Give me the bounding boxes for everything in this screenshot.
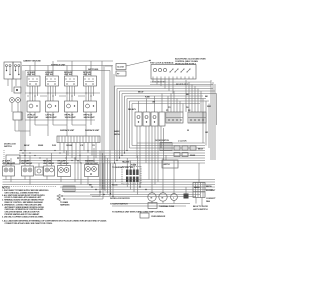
motor: cooling fan (159, 193, 167, 201)
svg-text:CABINET GROUND: CABINET GROUND (23, 60, 41, 63)
svg-text:W-R: W-R (207, 106, 211, 108)
svg-text:1200W UNIT: 1200W UNIT (65, 117, 77, 119)
wire: mid-bottom verticals (100, 151, 110, 197)
heater: warmer element (85, 160, 99, 177)
svg-text:BAKE: BAKE (194, 186, 200, 189)
svg-text:UNIT 2400W: UNIT 2400W (58, 162, 69, 165)
lamp: pilot LR (46, 101, 59, 119)
svg-text:W-BK: W-BK (190, 155, 196, 157)
node: trunk dots (20, 150, 25, 156)
wire: switch feeders (30, 61, 91, 76)
wire: top trunk L1 (57, 60, 113, 62)
switch: infinite switch LR (45, 72, 59, 86)
component: right mid boxes (174, 146, 203, 157)
wire: left feeders (8, 66, 25, 164)
svg-text:BK-W TO DOOR: BK-W TO DOOR (193, 206, 208, 208)
wire: main bus horizontals (19, 151, 205, 164)
lamp: pilot RF (84, 101, 97, 119)
wire: mesh below pilots (25, 112, 95, 136)
svg-text:THERMAL FUSE: THERMAL FUSE (159, 205, 175, 208)
wire: plugs drops (111, 156, 138, 197)
switch: clock boxlet (105, 64, 126, 77)
wire: motor feeds (152, 156, 202, 207)
lamp: pilot LF (27, 101, 40, 119)
svg-text:TO LATCH SWITCH: TO LATCH SWITCH (110, 203, 128, 206)
svg-text:2400W UNIT: 2400W UNIT (46, 116, 58, 119)
wire: right edge verticals (203, 80, 217, 160)
wire: nested bus right (115, 86, 217, 104)
wire: top trunk L2 (22, 65, 113, 67)
wire: inter-switch links (25, 86, 100, 101)
motor: convection fan (148, 193, 156, 201)
component: lower box (162, 160, 178, 168)
svg-text:MODELS) SEE NOTE 4: MODELS) SEE NOTE 4 (175, 63, 197, 66)
svg-text:RELAYS: RELAYS (128, 108, 136, 111)
svg-text:R-W: R-W (52, 145, 56, 147)
relay: latch box (160, 143, 172, 151)
svg-text:BROIL: BROIL (206, 186, 213, 188)
svg-text:SURFACE UNIT: SURFACE UNIT (60, 129, 75, 132)
wire: top trunk N (25, 70, 110, 72)
wire: bottom bus right (60, 187, 215, 197)
svg-text:CONVECT: CONVECT (206, 198, 216, 200)
connector: plug block outline (122, 167, 141, 185)
svg-text:OVEN SENSOR: OVEN SENSOR (151, 216, 166, 218)
svg-text:HARNESS: HARNESS (60, 204, 70, 207)
heater: surface element 2 (21, 161, 34, 177)
connector: P2 header (188, 110, 206, 123)
svg-text:LATCH SWITCH: LATCH SWITCH (193, 208, 208, 211)
switch: infinite switch RR (64, 72, 78, 86)
svg-text:BK-R: BK-R (198, 149, 203, 151)
lamp: pilot RR (65, 101, 78, 119)
node: junction dots bottom (91, 186, 146, 195)
heater: surface element 1 (2, 161, 15, 177)
wire: dashed separator (2, 186, 56, 188)
switch: lower-left box (6, 155, 20, 164)
svg-text:CLOCK: CLOCK (117, 67, 124, 69)
svg-text:TO SURFACE UNIT SWITCH AND OVE: TO SURFACE UNIT SWITCH AND OVEN TEMP CON… (112, 211, 165, 214)
heater: surface element 3 (35, 167, 43, 175)
wire: clock leads (150, 79, 213, 94)
svg-text:LATCH: LATCH (163, 163, 170, 166)
svg-text:SWITCHES: SWITCHES (88, 69, 99, 71)
module: clock assembly (151, 65, 196, 87)
svg-text:SWITCH: SWITCH (4, 146, 12, 148)
svg-text:L CLOCK: L CLOCK (178, 141, 187, 143)
svg-text:PLUG: PLUG (112, 185, 118, 187)
relay: left mid box (13, 112, 22, 120)
svg-text:W: W (187, 130, 189, 132)
svg-text:HI-LIMIT: HI-LIMIT (122, 162, 130, 164)
svg-text:BROIL: BROIL (114, 134, 121, 136)
component: small box low (148, 203, 157, 209)
svg-text:CONNECTORS AT EACH END. SEE CH: CONNECTORS AT EACH END. SEE CHART FOR CO… (5, 222, 53, 225)
wire: relay drops (137, 126, 161, 187)
switch: infinite switch RF (83, 72, 97, 86)
node: bus junction dots (24, 150, 88, 164)
svg-text:BK-W: BK-W (24, 145, 29, 147)
svg-text:BAKE: BAKE (114, 130, 120, 133)
component: harness cluster (57, 163, 103, 207)
svg-text:ELEMENT: ELEMENT (206, 190, 216, 192)
svg-text:FAN: FAN (206, 200, 210, 203)
svg-text:DOOR LOCK MOTOR: DOOR LOCK MOTOR (110, 198, 130, 200)
wire: bottom-left bus (3, 176, 216, 185)
wire: right trunk verticals (102, 61, 114, 190)
connector: P1 header (166, 110, 183, 123)
component: dark block (184, 194, 189, 199)
wire: relay top stubs (139, 94, 163, 113)
wire: bus staircase verticals (115, 86, 133, 163)
wire: latch feed vertical (164, 128, 167, 160)
switch: infinite switch LF (27, 72, 40, 86)
node: terminal strip (57, 136, 100, 143)
heater: surface element 5 (58, 161, 71, 177)
switch: door lock box (14, 87, 21, 93)
heater: surface element 4 (43, 161, 55, 177)
wire: diagonal to clock label (126, 61, 150, 67)
component: small box lowest (140, 213, 149, 218)
node: terminal block TB1 (4, 62, 21, 79)
wire: strip drops (60, 143, 96, 164)
svg-text:SURFACE UNIT: SURFACE UNIT (85, 129, 100, 132)
svg-text:UNIT 2400W: UNIT 2400W (21, 162, 32, 165)
svg-text:TO SURFACE UNIT SW: TO SURFACE UNIT SW (112, 166, 133, 169)
svg-text:DOOR SWITCH: DOOR SWITCH (155, 140, 170, 142)
svg-text:TOD CLOCK (C MODELS): TOD CLOCK (C MODELS) (150, 63, 174, 65)
svg-text:UNIT 1200W: UNIT 1200W (43, 163, 54, 165)
component: right bottom box (193, 183, 205, 198)
wire: lowest lines (112, 204, 190, 207)
wire: extra column verticals (27, 86, 94, 101)
svg-text:UNIT 1200W: UNIT 1200W (2, 163, 13, 165)
svg-text:5. USE ONLY COPPER CONDUCTORS: 5. USE ONLY COPPER CONDUCTORS 60C WIRE. (2, 216, 44, 218)
connector: bottom plug box (63, 186, 75, 192)
svg-text:2400W UNIT: 2400W UNIT (84, 116, 96, 119)
relay: relay row (128, 108, 165, 126)
svg-text:R-BK: R-BK (145, 97, 150, 99)
lamp: oven light (171, 194, 178, 201)
wire: element drops (6, 148, 94, 167)
wire: connector drop verticals (168, 80, 201, 112)
svg-text:1200W UNIT: 1200W UNIT (27, 117, 39, 119)
switch: door circles (10, 98, 15, 103)
wire: inter-element verticals (75, 158, 81, 185)
svg-text:BK-W: BK-W (138, 92, 143, 94)
svg-text:W-BK: W-BK (38, 145, 44, 147)
label: notes text block (2, 190, 107, 225)
